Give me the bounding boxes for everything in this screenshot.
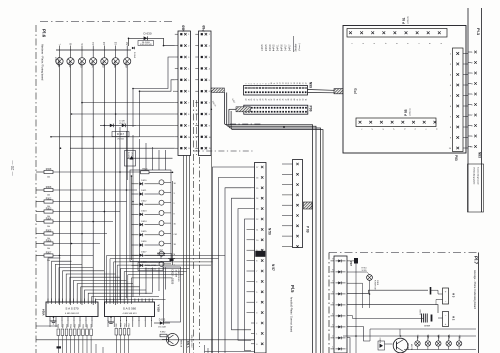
diode D630	[135, 32, 160, 47]
svg-text:2: 2	[332, 336, 333, 338]
svg-text:P9: P9	[353, 88, 358, 94]
diode D620	[132, 180, 159, 185]
lamp V807	[456, 334, 461, 350]
svg-text:Pl.6: Pl.6	[42, 29, 47, 38]
svg-text:1: 1	[246, 83, 248, 84]
svg-text:4 085 025 001: 4 085 025 001	[177, 270, 179, 282]
svg-text:R860: R860	[116, 323, 118, 327]
svg-text:P99: P99	[309, 106, 313, 112]
svg-text:Anschluß-Platte / Connect. boa: Anschluß-Platte / Connect. board	[290, 297, 293, 333]
diode D627	[132, 251, 159, 256]
svg-text:2=Pl.5: 2=Pl.5	[266, 44, 268, 51]
resistor R621	[141, 168, 173, 174]
svg-text:V804: V804	[428, 334, 430, 340]
connector N93	[468, 51, 482, 158]
svg-text:12: 12	[256, 219, 258, 221]
wire N97 to H2	[347, 305, 438, 319]
wire R306 output	[53, 243, 100, 245]
svg-text:23: 23	[246, 99, 248, 101]
svg-text:11: 11	[209, 148, 211, 150]
wire from lamp D606 down	[115, 65, 117, 305]
lamp V803	[415, 334, 420, 350]
cable stub at P99 (4x0,5)	[229, 98, 251, 111]
svg-text:S A S 560: S A S 560	[123, 307, 137, 311]
resistor network R860..R862	[115, 323, 131, 339]
svg-text:Pl.3: Pl.3	[476, 28, 481, 36]
svg-text:R861: R861	[120, 323, 122, 327]
wire R328 output	[53, 171, 142, 173]
wire R307 output	[53, 255, 93, 257]
wires N69 upper pins	[133, 57, 175, 137]
svg-text:10: 10	[188, 137, 190, 139]
capacitor C860	[430, 287, 432, 295]
svg-text:V 822: V 822	[186, 340, 190, 347]
resistor R882	[160, 332, 167, 337]
svg-text:3: 3	[209, 57, 210, 59]
svg-text:N69: N69	[182, 25, 186, 32]
label Verbindungsplatte box	[468, 164, 484, 212]
svg-text:43: 43	[303, 99, 305, 101]
svg-text:R703...R709: R703...R709	[145, 265, 157, 267]
svg-text:1: 1	[332, 347, 333, 349]
ground below SAS570	[51, 317, 57, 324]
svg-text:2: 2	[248, 83, 250, 84]
svg-text:5: 5	[209, 80, 210, 82]
svg-text:01R B: 01R B	[376, 280, 378, 286]
svg-text:4 085 (LW): 4 085 (LW)	[57, 57, 59, 66]
diode D907	[347, 258, 358, 336]
cable stub at P69 (2x0,14)	[211, 88, 225, 108]
diode D624	[132, 221, 159, 226]
svg-text:D604: D604	[91, 61, 95, 68]
svg-text:8: 8	[256, 261, 257, 263]
svg-text:6=Pl.6: 6=Pl.6	[282, 44, 284, 51]
svg-text:D609: D609	[125, 61, 129, 68]
svg-text:28: 28	[260, 99, 262, 101]
svg-text:Stecker: Stecker	[295, 43, 298, 51]
lamp D603	[78, 43, 85, 68]
svg-text:4 015 302 003: 4 015 302 003	[192, 334, 194, 348]
svg-text:ZD 8,2: ZD 8,2	[119, 123, 124, 125]
svg-text:1: 1	[209, 34, 210, 36]
svg-text:3: 3	[188, 57, 189, 59]
svg-text:8: 8	[332, 270, 333, 272]
wire D630 anode	[129, 38, 136, 46]
svg-text:D627: D627	[141, 251, 147, 253]
svg-text:P93: P93	[454, 155, 458, 161]
svg-text:4: 4	[209, 68, 210, 70]
diode D626	[132, 241, 159, 246]
svg-text:7: 7	[209, 103, 210, 105]
svg-text:35: 35	[280, 99, 282, 101]
resistor R308	[36, 187, 53, 197]
svg-text:14: 14	[283, 82, 285, 84]
diode D629	[125, 151, 136, 167]
indicator H2	[438, 312, 456, 327]
svg-text:2: 2	[188, 46, 189, 48]
svg-text:7=Pl.7: 7=Pl.7	[285, 44, 287, 51]
svg-text:Connecting board: Connecting board	[477, 167, 480, 185]
wire R308 output	[53, 189, 137, 191]
svg-text:22: 22	[305, 82, 307, 84]
svg-text:R857: R857	[87, 324, 89, 328]
ground below SAS560	[108, 317, 114, 324]
svg-text:4 085 568 013: 4 085 568 013	[123, 313, 138, 315]
svg-text:V805: V805	[439, 334, 441, 340]
svg-text:P97: P97	[349, 261, 353, 266]
lamp D601	[56, 43, 63, 68]
opto lamp at D625	[159, 231, 177, 236]
svg-text:25: 25	[251, 99, 253, 101]
svg-text:32: 32	[271, 99, 273, 101]
opto lamp at D620	[159, 180, 177, 185]
svg-text:R862: R862	[124, 323, 126, 327]
svg-text:D626: D626	[141, 241, 147, 243]
svg-text:3: 3	[251, 83, 253, 84]
svg-text:5: 5	[257, 83, 259, 84]
wires N59 to bus	[205, 167, 255, 353]
wire R302 output	[53, 201, 127, 203]
module P9 outline	[343, 26, 466, 154]
svg-text:6: 6	[332, 292, 333, 294]
svg-text:R852: R852	[66, 324, 68, 328]
svg-text:D 630: D 630	[143, 32, 151, 36]
svg-text:ZV 334: ZV 334	[117, 139, 124, 141]
svg-text:7: 7	[332, 281, 333, 283]
svg-text:18: 18	[294, 82, 296, 84]
wires N97 bottom region	[347, 282, 477, 353]
label D614 at lamp D601	[54, 57, 59, 66]
wires N69 pins to tuning lamps	[61, 103, 175, 142]
svg-text:1N 4148: 1N 4148	[158, 327, 166, 329]
svg-text:31: 31	[268, 99, 270, 101]
svg-text:2: 2	[256, 323, 257, 325]
indicator H3	[436, 288, 456, 305]
svg-text:D 614: D 614	[54, 57, 56, 63]
wires below ICs	[36, 320, 255, 353]
svg-text:Verbindungsplatte: Verbindungsplatte	[473, 167, 476, 185]
svg-text:N93: N93	[478, 152, 482, 158]
svg-text:BC308B: BC308B	[181, 339, 183, 347]
svg-text:LW/MW: LW/MW	[424, 326, 431, 328]
svg-text:D605: D605	[102, 61, 106, 68]
svg-text:9: 9	[188, 125, 189, 127]
transistor V801A	[393, 338, 413, 353]
svg-text:D621: D621	[141, 190, 147, 192]
svg-text:10: 10	[209, 137, 211, 139]
board Pl.3 outline	[468, 8, 482, 212]
svg-text:8: 8	[265, 83, 267, 84]
lamp D606	[112, 41, 119, 68]
resistor R328	[36, 169, 53, 179]
lamp D605	[101, 41, 108, 68]
resistor R303	[36, 208, 53, 218]
svg-text:— 20 —: — 20 —	[10, 160, 15, 176]
connector P69	[195, 25, 211, 155]
wire staircase into SAS560	[107, 256, 226, 305]
connector P95	[356, 108, 437, 130]
svg-text:R863: R863	[129, 323, 131, 327]
svg-text:D622: D622	[141, 200, 147, 202]
svg-text:0: 0	[256, 344, 257, 346]
lamp D609	[124, 41, 131, 68]
svg-text:11: 11	[274, 83, 276, 85]
wire row y147	[70, 147, 175, 149]
svg-text:42: 42	[300, 99, 302, 101]
transistor V822	[162, 334, 194, 348]
svg-text:7: 7	[188, 103, 189, 105]
svg-text:11: 11	[256, 229, 258, 231]
lamp V804	[425, 334, 430, 350]
label R703 block	[138, 263, 163, 271]
svg-text:13: 13	[280, 82, 282, 84]
resistor R302	[36, 198, 53, 208]
board Pl.6 label	[41, 29, 47, 81]
svg-text:3: 3	[332, 325, 333, 327]
svg-text:R854: R854	[75, 324, 77, 328]
board Pl.6 outline	[36, 22, 194, 353]
svg-text:4: 4	[188, 68, 189, 70]
diode D614	[132, 47, 135, 59]
svg-text:29: 29	[263, 99, 265, 101]
wire bottom bus Pl.7	[343, 336, 476, 350]
ground at C2	[168, 253, 175, 261]
svg-text:39: 39	[291, 99, 293, 101]
svg-text:10k: 10k	[47, 226, 50, 228]
ribbon cable P99 to P59	[225, 93, 317, 353]
svg-text:14: 14	[256, 198, 258, 200]
svg-text:16: 16	[256, 177, 258, 179]
svg-text:D606: D606	[113, 61, 117, 68]
svg-text:24: 24	[248, 99, 250, 101]
diode D628	[132, 262, 159, 267]
wires P59 left	[282, 158, 289, 246]
svg-text:30: 30	[265, 99, 267, 101]
IC V820 SAS560	[105, 299, 161, 322]
svg-text:2: 2	[209, 46, 210, 48]
diode D813	[154, 319, 170, 329]
svg-text:13: 13	[256, 209, 258, 211]
svg-text:Pl.7: Pl.7	[474, 256, 479, 265]
svg-text:17: 17	[256, 167, 258, 169]
svg-text:9: 9	[332, 259, 333, 261]
svg-text:9: 9	[268, 83, 270, 84]
svg-text:4 085 568 012: 4 085 568 012	[65, 313, 80, 315]
svg-text:33: 33	[274, 99, 276, 101]
svg-text:3=Pl.6: 3=Pl.6	[270, 44, 272, 51]
opto lamp at D627	[159, 251, 176, 256]
page number	[10, 160, 15, 176]
svg-text:Anzeige - Platte / Indicatin: Anzeige - Platte / Indicating board	[473, 270, 477, 309]
resistor R306	[36, 240, 53, 250]
svg-text:D625: D625	[141, 231, 147, 233]
svg-text:D 617: D 617	[117, 132, 124, 136]
svg-text:34: 34	[277, 99, 279, 101]
svg-text:1=Pl.5: 1=Pl.5	[262, 44, 264, 51]
svg-text:S 320: S 320	[362, 270, 367, 272]
diode D622	[132, 200, 159, 205]
diode D621	[132, 190, 159, 195]
svg-text:CM: CM	[174, 234, 177, 236]
diode D617 pair	[100, 121, 136, 141]
svg-text:19: 19	[297, 82, 299, 84]
svg-text:6: 6	[188, 91, 189, 93]
resistor R305	[36, 230, 53, 240]
svg-text:7: 7	[256, 271, 257, 273]
board Pl.5 label	[290, 285, 296, 333]
svg-text:9=Pl.7: 9=Pl.7	[289, 44, 291, 51]
svg-text:(Chass.): (Chass.)	[299, 43, 301, 51]
svg-text:N 59: N 59	[267, 228, 271, 235]
svg-text:6: 6	[209, 91, 210, 93]
svg-text:41: 41	[297, 99, 299, 101]
svg-text:10k: 10k	[47, 176, 50, 178]
svg-text:(1901/2): (1901/2)	[408, 16, 410, 24]
connector P99	[244, 105, 313, 114]
svg-text:R851: R851	[62, 324, 64, 328]
svg-text:BC328: BC328	[412, 343, 414, 350]
diode D625	[132, 231, 159, 236]
svg-text:M: M	[69, 43, 72, 45]
svg-text:V803: V803	[418, 334, 420, 340]
wire N97 to H3	[347, 283, 438, 308]
board Pl.7 outline	[329, 253, 479, 353]
wire bus below connectors N69/P69	[184, 93, 212, 353]
svg-text:3: 3	[256, 313, 257, 315]
svg-text:D 803: D 803	[380, 337, 382, 343]
svg-text:15: 15	[285, 82, 287, 84]
svg-text:P 69: P 69	[306, 226, 310, 233]
diode D623	[132, 211, 159, 216]
svg-text:H 3: H 3	[452, 293, 456, 298]
svg-text:20: 20	[300, 82, 302, 84]
wire lamp supply bus	[56, 45, 131, 50]
svg-text:4: 4	[256, 302, 257, 304]
opto lamp at D624	[159, 221, 177, 226]
svg-text:D620: D620	[141, 180, 147, 182]
connector N97	[331, 256, 353, 353]
opto lamp at D622	[159, 200, 176, 205]
lamp D604	[90, 41, 97, 68]
svg-text:R850: R850	[58, 324, 60, 328]
svg-text:7: 7	[263, 83, 265, 84]
svg-text:V806: V806	[449, 334, 451, 340]
svg-text:8: 8	[188, 114, 189, 116]
svg-text:4 705 040 002: 4 705 040 002	[145, 268, 157, 270]
svg-text:P69: P69	[202, 25, 206, 31]
IC V824 SAS570	[42, 299, 99, 322]
connector N59	[251, 163, 275, 353]
svg-text:37: 37	[285, 99, 287, 101]
svg-text:V801A: V801A	[407, 343, 410, 350]
wire row y139	[51, 136, 175, 138]
svg-text:H 2: H 2	[452, 316, 456, 321]
svg-text:S A S 570: S A S 570	[65, 307, 79, 311]
svg-text:4=Pl.5: 4=Pl.5	[274, 44, 276, 51]
svg-text:FUNK/TGM: FUNK/TGM	[374, 280, 376, 290]
svg-text:D624: D624	[141, 221, 147, 223]
lamp V805	[436, 334, 441, 350]
connector N99	[244, 82, 313, 101]
wires P93 to N93	[463, 54, 468, 149]
label D820-D826 box	[164, 267, 181, 322]
board Pl.7 label	[473, 256, 479, 309]
svg-text:R858: R858	[91, 324, 93, 328]
ribbon cable N99 to P9	[308, 89, 344, 94]
lamp V806	[446, 334, 451, 350]
svg-text:16: 16	[288, 82, 290, 84]
svg-text:D603: D603	[79, 61, 83, 68]
svg-text:10: 10	[271, 82, 273, 84]
svg-text:17: 17	[291, 82, 293, 84]
svg-text:D 629: D 629	[127, 152, 129, 159]
wire grid verticals (matrix)	[120, 127, 166, 300]
svg-text:5: 5	[256, 292, 257, 294]
connector P93	[449, 48, 463, 161]
driver column frame	[130, 170, 171, 262]
connector N69	[175, 25, 191, 155]
opto lamp at D626	[159, 241, 177, 246]
svg-text:21: 21	[303, 82, 305, 84]
svg-text:10k: 10k	[47, 260, 50, 262]
wire from lamp D601 down	[59, 65, 61, 305]
svg-text:V824: V824	[42, 309, 46, 316]
svg-text:6: 6	[260, 83, 262, 84]
opto lamp at D623	[159, 210, 176, 215]
lamp D602	[67, 43, 74, 68]
svg-text:1: 1	[256, 333, 257, 335]
svg-text:8: 8	[209, 114, 210, 116]
svg-text:R 882: R 882	[160, 332, 166, 334]
opto lamp at D621	[159, 190, 176, 195]
wire from lamp D604 down	[92, 65, 94, 305]
svg-text:5: 5	[188, 80, 189, 82]
svg-text:5: 5	[332, 303, 333, 305]
svg-text:D602: D602	[68, 61, 72, 68]
svg-text:10k: 10k	[47, 248, 50, 250]
svg-text:R853: R853	[71, 324, 73, 328]
svg-text:12: 12	[277, 82, 279, 84]
wire row y158	[127, 158, 173, 166]
wire from lamp D605 down	[103, 65, 105, 305]
svg-text:(1901/1): (1901/1)	[410, 108, 412, 116]
wire R303 output	[53, 211, 120, 213]
svg-text:4 085 025 N-B: 4 085 025 N-B	[140, 44, 152, 46]
svg-text:N 57: N 57	[271, 264, 275, 271]
svg-text:N99: N99	[309, 82, 313, 88]
wire driver column bus	[132, 176, 173, 265]
svg-text:10: 10	[256, 240, 258, 242]
svg-text:Pl.5: Pl.5	[290, 285, 295, 293]
opto lamp at D628	[159, 261, 176, 266]
svg-text:1: 1	[188, 34, 189, 36]
svg-text:9: 9	[209, 125, 210, 127]
svg-text:15: 15	[256, 188, 258, 190]
svg-text:11: 11	[188, 148, 190, 150]
svg-text:10k: 10k	[47, 194, 50, 196]
legend: connector key	[262, 36, 301, 52]
svg-text:R856: R856	[83, 324, 85, 328]
connector P59	[289, 160, 310, 248]
svg-text:44: 44	[305, 99, 307, 101]
diode D803	[378, 337, 385, 350]
svg-text:V 820: V 820	[157, 305, 161, 313]
svg-text:D 813: D 813	[159, 319, 166, 322]
buzzer B860	[420, 309, 432, 328]
svg-text:D820 - D826: D820 - D826	[171, 270, 175, 285]
wire R304 output	[53, 221, 113, 223]
svg-text:40: 40	[294, 99, 296, 101]
